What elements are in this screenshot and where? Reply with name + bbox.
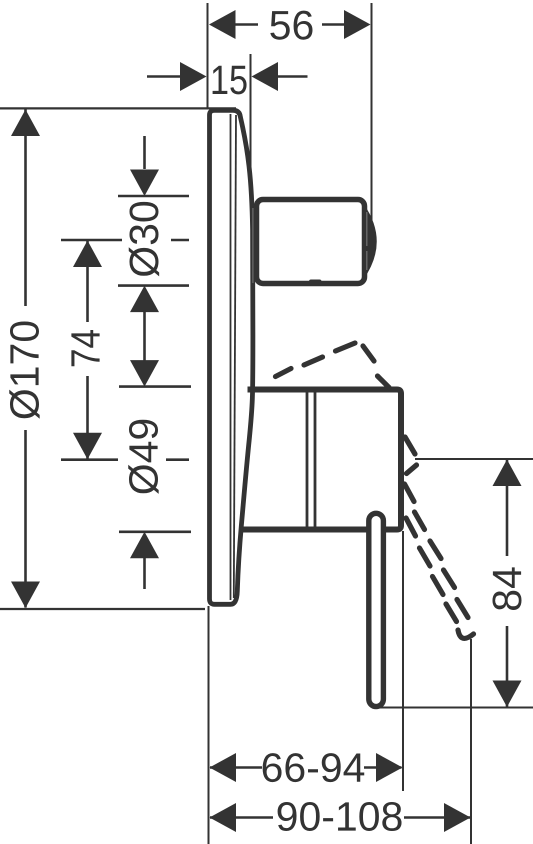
wall plate (escutcheon, side profile)	[210, 110, 253, 604]
extension line lever bottom right (y=707.5)	[376, 707, 533, 709]
label 15	[213, 66, 247, 95]
lever rod (solid, down position)	[369, 513, 384, 706]
dimension 56 left arrow	[209, 10, 236, 39]
extension line dashed-lever tip (x=471)	[470, 639, 472, 844]
extension line knob centre right (y=459)	[415, 458, 533, 460]
dashed rod right edge	[415, 512, 425, 530]
tick knob1 centre (y=240)	[61, 239, 189, 242]
label 56	[270, 11, 312, 40]
leader between D30 and D49	[143, 311, 146, 361]
label 74	[71, 330, 99, 366]
plate rim line inner	[234, 115, 236, 598]
extension line below plate (x=208.5)	[208, 606, 210, 844]
dimension line 90-108	[210, 816, 471, 819]
dimension line 56	[234, 23, 346, 26]
tick knob2 top (y=386.6)	[119, 385, 191, 388]
dashed lever near knob face	[405, 437, 415, 454]
dimension D49 bottom arrow	[130, 532, 159, 559]
dimension line 74	[86, 240, 89, 460]
upper knob end cap arc	[364, 205, 377, 279]
upper knob (diverter handle)	[257, 200, 365, 284]
label D30	[129, 202, 159, 276]
dimension 66-94 left arrow	[210, 753, 237, 782]
dimension 15 left arrow	[180, 62, 207, 91]
dimension D30 top leader	[143, 136, 146, 169]
dashed lever arm top edge	[276, 343, 474, 638]
dimension 56 right arrow	[344, 10, 371, 39]
dimension line D170	[24, 109, 27, 608]
extension line knob face bottom (x=403)	[402, 531, 404, 791]
left joint highlight sliver	[252, 208, 254, 283]
dimension line 66-94	[210, 766, 402, 769]
extension line plate bottom left (y=608.5)	[0, 608, 205, 610]
dimension D170 bottom arrow	[11, 582, 40, 609]
dimension D49 top arrow	[130, 360, 159, 387]
dimension 74 bottom arrow	[73, 433, 102, 460]
dimension 90-108 left arrow	[210, 803, 237, 832]
label 66-94	[263, 753, 365, 782]
dimension 15 right tail	[278, 75, 308, 78]
lower knob joint line left	[306, 392, 309, 527]
dimension 66-94 right arrow	[376, 753, 403, 782]
tick knob1 top (y=196)	[118, 195, 189, 198]
extension line plate front (x=250.5)	[250, 54, 252, 198]
cap highlight sliver	[366, 212, 368, 246]
dimension D170 top arrow	[11, 110, 40, 137]
extension line plate top left (y=111)	[0, 107, 236, 109]
dimension 15 left tail	[147, 75, 180, 78]
tick knob1 bottom (y=285.6)	[118, 284, 189, 287]
extension line top wall (x=207.5)	[207, 3, 209, 109]
dimension 90-108 right arrow	[444, 803, 471, 832]
label D170	[9, 321, 39, 418]
dimension line 84	[506, 459, 509, 708]
dimension D30 top arrow	[130, 170, 159, 197]
tick knob2 bottom (y=531.8)	[119, 530, 191, 533]
label D49	[128, 420, 158, 494]
tick knob2 centre (y=459.7)	[61, 458, 189, 461]
dimension D49 bottom leader	[143, 557, 146, 589]
label 90-108	[278, 802, 402, 831]
extension line knob front (x=371.5)	[371, 3, 373, 245]
dimension D30 bottom arrow	[130, 286, 159, 313]
dimension 74 top arrow	[73, 241, 102, 268]
label 84	[492, 567, 521, 610]
dashed rod left edge	[406, 518, 416, 536]
lower knob joint line right	[314, 392, 317, 527]
lower knob (lever cartridge)	[241, 390, 401, 530]
dimension 84 bottom arrow	[493, 681, 522, 708]
dimension 84 top arrow	[493, 460, 522, 487]
plate rim line outer	[230, 114, 232, 600]
upper knob index nub	[309, 280, 322, 286]
dashed rod tip cap	[458, 630, 474, 638]
dimension 15 right arrow	[252, 62, 279, 91]
